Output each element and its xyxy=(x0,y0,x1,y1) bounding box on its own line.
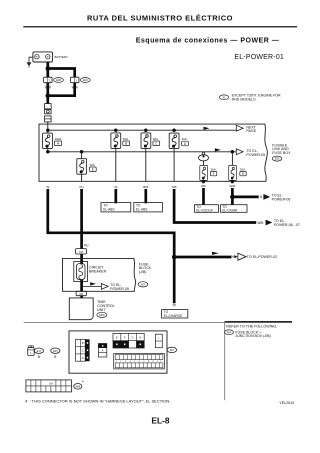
svg-text:F: F xyxy=(213,172,215,176)
fusible link F5 40A xyxy=(169,133,179,149)
refer box left border xyxy=(224,322,226,400)
arrow pair TO EL-POWER-02 xyxy=(234,253,277,260)
svg-text:E: E xyxy=(116,336,118,340)
svg-text:PU: PU xyxy=(80,185,84,189)
wire branch to POWER-02 xyxy=(174,256,231,259)
circuit breaker xyxy=(74,262,107,282)
fuse F6 30A xyxy=(200,165,208,180)
svg-text:B/R: B/R xyxy=(143,185,149,189)
svg-text:H: H xyxy=(139,336,141,340)
connector pair below junction xyxy=(45,104,52,114)
svg-text:W: W xyxy=(114,185,117,189)
label fusible link and fuse box xyxy=(272,143,291,161)
box TO EL-ABS 1 xyxy=(101,203,131,212)
note X1 except models xyxy=(220,94,281,102)
connector E43 xyxy=(71,77,91,83)
top bus wire xyxy=(48,129,236,131)
svg-text:E17: E17 xyxy=(37,350,42,353)
svg-text:B: B xyxy=(82,341,84,345)
wire W trunk from F1 xyxy=(48,189,174,303)
svg-text:M4: M4 xyxy=(227,330,231,334)
fusible link F4 40A xyxy=(141,133,151,149)
wire branch to POWER-06 xyxy=(232,196,258,199)
ground connector E17 xyxy=(28,346,44,359)
svg-text:W/R: W/R xyxy=(229,184,236,188)
wire into time control unit xyxy=(80,296,83,298)
wire branch right xyxy=(48,69,75,78)
arrow TO EL-POWER-06 xyxy=(263,194,290,202)
fuse box entry terminal xyxy=(45,116,52,122)
svg-text:EL-ABS: EL-ABS xyxy=(136,207,147,211)
wire F2 bottom stub xyxy=(81,174,83,181)
refer M4 fuse block xyxy=(225,330,271,338)
svg-text:JUNCTION BOX (J/B): JUNCTION BOX (J/B) xyxy=(235,334,270,338)
wire F7 output xyxy=(231,180,234,183)
svg-text:M66: M66 xyxy=(75,385,80,388)
svg-text:UNIT: UNIT xyxy=(97,308,106,312)
svg-text:FUSE BOX: FUSE BOX xyxy=(272,151,291,155)
svg-text:*: * xyxy=(82,380,84,385)
label 40A F3 xyxy=(123,137,130,146)
node battery junction 1 xyxy=(46,66,51,71)
svg-text:6M: 6M xyxy=(79,293,82,296)
svg-text:G: G xyxy=(131,336,133,340)
title underline xyxy=(23,26,297,28)
svg-text:B: B xyxy=(38,355,40,359)
node top bus F3 xyxy=(114,128,118,132)
fusible link and fuse box E50 outline xyxy=(39,124,267,181)
pin connector small xyxy=(155,334,162,348)
svg-text:1 2 3 4 5 6 7 8 9 10: 1 2 3 4 5 6 7 8 9 10 xyxy=(115,361,162,363)
label 30A F6 xyxy=(210,167,216,176)
separator line xyxy=(24,321,225,323)
label time control unit xyxy=(97,300,115,317)
svg-text:W: W xyxy=(46,185,49,189)
svg-text:40A: 40A xyxy=(89,163,94,167)
harness connector strip xyxy=(26,380,72,392)
wire F1 bottom stub xyxy=(47,149,49,152)
svg-text:A: A xyxy=(102,348,104,352)
connector mark on trunk xyxy=(173,305,176,306)
strip ref oval M66 xyxy=(74,380,84,390)
wire battery down xyxy=(46,62,49,77)
svg-text:C: C xyxy=(82,349,84,353)
svg-text:40A: 40A xyxy=(182,137,187,141)
label fuse block J/B xyxy=(138,262,151,287)
svg-text:E43: E43 xyxy=(53,350,58,353)
svg-text:Esquema de conexiones — POWER: Esquema de conexiones — POWER — xyxy=(136,37,279,44)
wire breaker down xyxy=(80,280,83,292)
wire F6 output xyxy=(202,180,205,183)
svg-text:TO EL-POWER-02: TO EL-POWER-02 xyxy=(247,255,277,259)
svg-text:E38: E38 xyxy=(56,78,61,82)
svg-text:YEL2810: YEL2810 xyxy=(279,401,294,405)
svg-text:EL-CIGAR: EL-CIGAR xyxy=(222,208,238,212)
direction arrow second bus xyxy=(215,148,221,151)
fuse block J/B outline xyxy=(63,258,136,291)
svg-text:RHD MODELS: RHD MODELS xyxy=(232,97,257,101)
node second bus F2 xyxy=(80,150,84,154)
wire joint to F6 xyxy=(203,161,205,166)
open arrow TO EL-POWER-09 xyxy=(101,283,128,291)
connector 6M out of J/B xyxy=(76,291,86,296)
svg-text:M23: M23 xyxy=(99,313,105,317)
label 40A F5 xyxy=(182,137,189,146)
svg-text:E43: E43 xyxy=(83,78,88,82)
svg-text:40A: 40A xyxy=(153,137,158,141)
wire F3 output xyxy=(115,148,117,181)
svg-text:POWER-09: POWER-09 xyxy=(110,287,129,291)
direction arrow POWER-09 xyxy=(90,282,96,285)
fusible link F2 40A xyxy=(77,159,87,175)
node second bus F7 xyxy=(231,150,235,154)
wire F2 top stub xyxy=(81,152,83,159)
svg-text:100A: 100A xyxy=(54,137,61,141)
ground xyxy=(27,57,33,67)
open arrow TO EL-POWER-05 xyxy=(236,149,265,157)
node battery junction 2 xyxy=(46,93,51,98)
svg-text:B: B xyxy=(125,142,127,146)
svg-text:RUTA DEL SUMINISTRO ELÉCTRICO: RUTA DEL SUMINISTRO ELÉCTRICO xyxy=(87,14,233,23)
svg-text:(J/B): (J/B) xyxy=(139,270,147,274)
pin grid 2 xyxy=(98,344,106,358)
wire F4 output xyxy=(145,148,147,181)
svg-text:1M: 1M xyxy=(49,383,52,386)
fuse F7 30A xyxy=(229,165,237,180)
box TO EL-ABS 2 xyxy=(134,203,163,212)
box TO EL-COOL/F xyxy=(195,205,219,213)
svg-text:W/B: W/B xyxy=(257,221,263,225)
open arrow NEXT PAGE xyxy=(236,125,256,133)
refer box top border xyxy=(225,321,292,323)
wire F5 output xyxy=(173,149,175,182)
node top bus F5 xyxy=(172,128,176,132)
svg-text:PAGE: PAGE xyxy=(246,129,256,133)
svg-text:POWER-06, -07: POWER-06, -07 xyxy=(274,223,300,227)
svg-text:W/L: W/L xyxy=(201,184,207,188)
label 30A F7 xyxy=(240,167,246,176)
svg-text:E: E xyxy=(92,168,94,172)
label 40A F2 xyxy=(89,163,96,172)
svg-text:B: B xyxy=(54,355,56,359)
svg-text:30A: 30A xyxy=(240,167,245,171)
box TO EL-CIGAR xyxy=(221,205,248,213)
svg-text:EL-CHARGE: EL-CHARGE xyxy=(164,314,183,318)
node top bus F1 xyxy=(46,128,50,132)
label 100A xyxy=(54,137,61,146)
node F7 branch xyxy=(230,195,235,200)
svg-text:40A: 40A xyxy=(123,137,128,141)
wire left down xyxy=(46,83,49,104)
box TO EL-CHARGE xyxy=(162,310,188,318)
svg-text:BATTERY: BATTERY xyxy=(55,55,69,59)
connector E38 xyxy=(44,77,64,83)
direction arrow top bus xyxy=(204,127,210,130)
arrow TO EL-POWER-06 -07 xyxy=(266,219,300,227)
node trunk branch xyxy=(172,255,177,260)
svg-text:EL-8: EL-8 xyxy=(151,415,169,425)
second bus wire xyxy=(48,151,236,153)
pin grid 1 xyxy=(76,339,90,361)
wire S/B from F5 to right xyxy=(174,189,256,223)
node top bus F4 xyxy=(144,128,148,132)
svg-text:S/B: S/B xyxy=(172,185,177,189)
connector box ref oval xyxy=(167,347,177,352)
svg-text:BREAKER: BREAKER xyxy=(89,269,107,273)
pin grid 3 top xyxy=(113,333,144,348)
svg-text:M4: M4 xyxy=(170,348,174,352)
svg-text:D: D xyxy=(82,356,84,360)
wire F7 top stub xyxy=(231,152,233,166)
wire PU from F2 xyxy=(80,189,83,249)
svg-text:EL-ABS: EL-ABS xyxy=(103,207,114,211)
wire into J/B xyxy=(80,254,83,264)
svg-text:E50: E50 xyxy=(275,157,280,161)
wire branch to POWER-09 xyxy=(82,285,102,287)
pin grid long xyxy=(114,354,165,369)
joint connector oval xyxy=(199,152,209,161)
svg-text:PU: PU xyxy=(84,243,89,247)
direction arrow on branch xyxy=(212,252,219,255)
svg-text:EL-COOL/F: EL-COOL/F xyxy=(196,208,213,212)
ground connector E43b xyxy=(51,348,60,359)
svg-text:POWER-05: POWER-05 xyxy=(246,153,265,157)
svg-text:POWER-06: POWER-06 xyxy=(272,197,291,201)
svg-text:B: B xyxy=(260,195,262,199)
svg-text:: THIS CONNECTOR IS NOT SHOWN: : THIS CONNECTOR IS NOT SHOWN IN “HARNES… xyxy=(30,399,171,404)
connector 1M into J/B xyxy=(76,249,87,254)
time control unit box xyxy=(69,298,93,320)
battery xyxy=(33,52,68,62)
fusible link F1 100A xyxy=(43,133,53,149)
connector layout box xyxy=(69,331,167,373)
svg-text:30A: 30A xyxy=(210,167,215,171)
svg-text:REFER TO THE FOLLOWING.: REFER TO THE FOLLOWING. xyxy=(226,325,277,329)
wire right return xyxy=(49,83,75,96)
node second bus F1 xyxy=(46,150,50,154)
svg-text:M7: M7 xyxy=(141,282,145,286)
svg-text:EL-POWER-01: EL-POWER-01 xyxy=(234,54,284,61)
fusible link F3 40A xyxy=(111,133,121,149)
wire into fuse box xyxy=(47,122,49,133)
svg-text:X1: X1 xyxy=(222,95,226,99)
label 40A F4 xyxy=(153,137,160,146)
